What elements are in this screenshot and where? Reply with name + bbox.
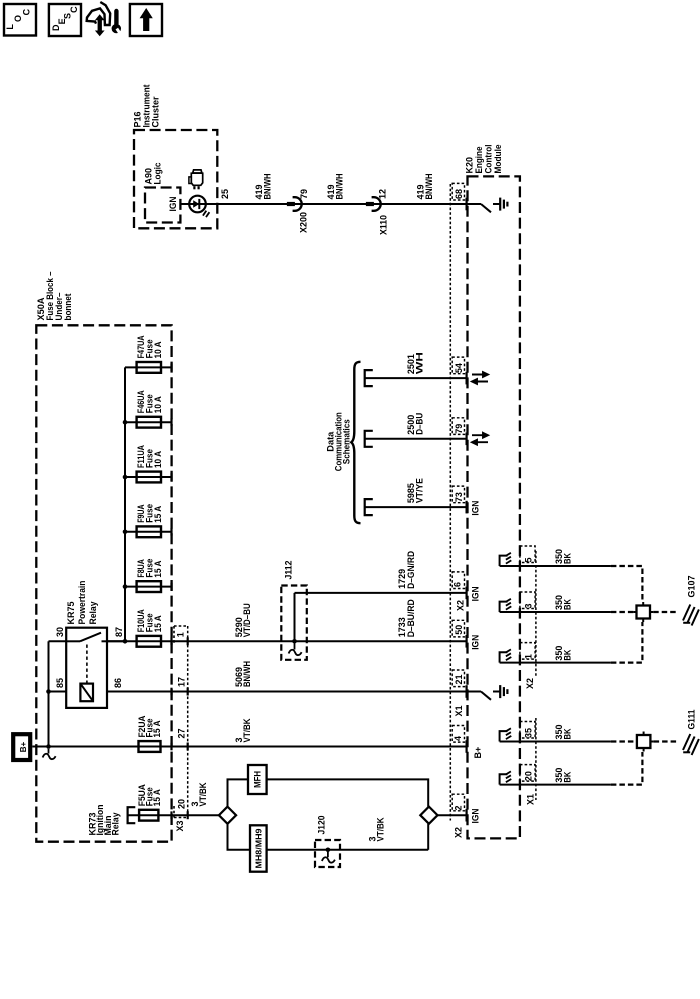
svg-text:68: 68 <box>454 189 464 199</box>
svg-text:MH8/MH9: MH8/MH9 <box>253 828 263 868</box>
dashed wire G107 to ground point <box>653 611 677 613</box>
svg-text:X3: X3 <box>175 820 185 831</box>
svg-text:21: 21 <box>454 674 464 684</box>
fuse F11UA 10 A <box>125 476 172 478</box>
svg-text:BK: BK <box>563 649 573 660</box>
dashed ground routing pin 20 to G111 <box>611 752 643 785</box>
svg-text:2: 2 <box>454 805 464 810</box>
svg-text:1: 1 <box>176 632 186 637</box>
wire bottom branch to MH8/MH9 <box>228 824 251 850</box>
svg-text:D–GN/RD: D–GN/RD <box>406 550 416 588</box>
svg-text:IGN: IGN <box>470 635 480 650</box>
ECM connector strip right X1 <box>535 718 537 800</box>
indicator lamp bulb icon <box>193 170 202 173</box>
pin 68 terminal tick <box>466 198 468 211</box>
fuse F9UA 15 A <box>125 531 172 533</box>
svg-text:86: 86 <box>113 678 123 688</box>
wire 350 BK pin 5 <box>500 565 611 567</box>
svg-text:VT/D–BU: VT/D–BU <box>242 603 252 637</box>
pin 4 terminal tick <box>466 740 468 753</box>
svg-text:K20: K20 <box>465 157 475 174</box>
component MFH <box>248 765 267 794</box>
splice diamond right <box>420 807 437 824</box>
svg-text:BK: BK <box>563 728 573 739</box>
svg-text:10 A: 10 A <box>153 341 163 358</box>
svg-text:VT/YE: VT/YE <box>415 478 425 503</box>
svg-text:73: 73 <box>454 492 464 502</box>
svg-text:Control: Control <box>484 145 494 174</box>
icon up-arrow button <box>130 4 162 36</box>
fuse F8UA 15 A <box>125 586 172 588</box>
pin 50 terminal tick <box>466 635 468 648</box>
wire 1729 D-GN/RD to pin 6 <box>295 592 467 594</box>
svg-text:IGN: IGN <box>470 501 480 516</box>
svg-text:J112: J112 <box>284 561 294 580</box>
svg-text:87: 87 <box>114 627 124 637</box>
svg-text:BK: BK <box>563 599 573 610</box>
relay coil KR75 <box>80 684 93 702</box>
pin 17 tick already; pin 21 terminal tick <box>466 685 468 698</box>
wire MFH to right diamond <box>267 779 429 806</box>
ground pin 20 internal ground symbol <box>500 774 508 784</box>
relay KR75 Powertrain Relay box <box>66 628 107 708</box>
wire relay pin30 to B+ feed <box>49 640 67 642</box>
wire 5069 BN/WH run pin86 to pin 21 <box>107 691 468 693</box>
dashed ground routing pin 5 to G107 <box>611 566 643 602</box>
svg-text:VT/BK: VT/BK <box>376 817 386 841</box>
svg-text:BK: BK <box>563 553 573 564</box>
icon LOC button <box>4 4 36 36</box>
svg-text:BN/WH: BN/WH <box>424 174 434 200</box>
svg-text:79: 79 <box>454 424 464 434</box>
pin 2 terminal tick <box>466 809 468 822</box>
svg-text:Logic: Logic <box>153 163 163 185</box>
continuation squiggle below B+ junction <box>43 749 56 759</box>
svg-text:Module: Module <box>493 145 503 174</box>
switch to ground inside ECM at pin 21 <box>468 691 482 693</box>
svg-text:BK: BK <box>563 771 573 782</box>
svg-text:12: 12 <box>378 189 388 199</box>
wire 350 BK pin 1 <box>500 662 611 664</box>
svg-text:15 A: 15 A <box>153 615 163 632</box>
svg-text:G111: G111 <box>687 710 697 730</box>
svg-text:VT/BK: VT/BK <box>198 782 208 806</box>
svg-text:IGN: IGN <box>471 809 481 824</box>
svg-text:17: 17 <box>177 677 187 687</box>
svg-text:X1: X1 <box>454 705 464 716</box>
ground splice G111 <box>637 735 651 748</box>
connector X200 <box>287 202 295 206</box>
ground pin 1 internal ground symbol <box>500 652 508 662</box>
wire J120 to right diamond <box>427 824 429 850</box>
svg-text:25: 25 <box>220 189 230 199</box>
wire 350 BK pin 35 <box>500 741 611 743</box>
pin 6 terminal tick <box>466 587 468 600</box>
svg-text:85: 85 <box>55 678 65 688</box>
svg-text:B+: B+ <box>19 741 28 752</box>
svg-text:bonnet: bonnet <box>63 294 73 321</box>
wire top branch to MFH <box>228 779 249 806</box>
wire 5290 VT/D-BU run F10UA to pin 50 <box>107 640 467 642</box>
connector X110 <box>366 202 374 206</box>
ground pin 35 internal ground symbol <box>500 731 508 741</box>
svg-text:Relay: Relay <box>88 602 98 625</box>
ECM connector strip right X2 <box>535 551 537 676</box>
continuation squiggle below J120 splice <box>322 852 335 863</box>
svg-text:15 A: 15 A <box>153 560 163 577</box>
svg-text:50: 50 <box>454 625 464 635</box>
battery terminal B+ <box>13 734 30 760</box>
svg-text:3: 3 <box>524 603 534 608</box>
svg-text:J120: J120 <box>317 816 327 835</box>
svg-text:BN/WH: BN/WH <box>335 174 345 200</box>
svg-text:5: 5 <box>524 557 534 562</box>
svg-text:Relay: Relay <box>111 813 121 836</box>
svg-text:54: 54 <box>454 363 464 373</box>
svg-text:27: 27 <box>177 728 187 738</box>
A90 Logic box <box>145 188 180 223</box>
wire 3 VT/BK B+ run to pin 4 <box>32 746 466 748</box>
svg-text:15 A: 15 A <box>153 505 163 522</box>
continuation squiggle below J112 splice <box>289 644 302 656</box>
indicator lamp LED symbol <box>189 196 206 213</box>
ground G111 <box>683 751 690 753</box>
svg-text:10 A: 10 A <box>153 451 163 468</box>
svg-text:C: C <box>22 8 32 15</box>
ground splice G107 <box>637 606 651 619</box>
svg-text:C: C <box>69 6 79 13</box>
wire MH8/MH9 to J120 <box>267 849 429 851</box>
svg-text:VT/BK: VT/BK <box>242 718 252 742</box>
fuse bus wire <box>124 367 126 641</box>
relay mechanical link <box>86 645 88 684</box>
svg-text:MFH: MFH <box>253 771 263 788</box>
icon DESC button <box>49 4 81 36</box>
connector X3 strip <box>187 626 189 818</box>
dashed ground routing pin 1 to G107 <box>611 622 643 663</box>
svg-text:4: 4 <box>453 736 463 741</box>
ground pin 5 internal ground symbol <box>500 556 508 566</box>
wire relay pin87 to fuse bus <box>107 640 125 642</box>
svg-text:Cluster: Cluster <box>151 96 161 127</box>
svg-text:KR75: KR75 <box>66 602 76 625</box>
component MH8/MH9 <box>250 825 267 871</box>
svg-text:35: 35 <box>524 728 534 738</box>
svg-text:IGN: IGN <box>168 197 178 212</box>
K20 Engine Control Module box <box>468 176 520 838</box>
svg-text:B+: B+ <box>473 747 483 759</box>
wire relay pin85 <box>49 691 67 693</box>
ticks at fuse block edge <box>170 638 172 646</box>
wire 2501 to pin 54 <box>365 370 373 386</box>
wire 5985 to pin 73 <box>365 499 373 515</box>
svg-text:Schematics: Schematics <box>342 419 352 464</box>
svg-text:G107: G107 <box>687 576 697 598</box>
X50A Fuse Block Underbonnet box <box>36 325 171 841</box>
svg-text:IGN: IGN <box>470 586 480 601</box>
svg-text:X2: X2 <box>454 827 464 838</box>
svg-text:BN/WH: BN/WH <box>242 661 252 687</box>
icon pan-arrow with wrench <box>87 2 111 25</box>
svg-text:6: 6 <box>453 582 463 587</box>
svg-text:20: 20 <box>177 799 187 809</box>
svg-text:X2: X2 <box>456 600 466 611</box>
ECM connector strip left <box>449 184 451 821</box>
svg-text:Engine: Engine <box>474 147 484 174</box>
serial data arrows at pin 79 <box>472 433 488 438</box>
icon wrench part <box>114 11 118 24</box>
P16 Instrument Cluster box <box>134 130 217 228</box>
junction B+ feed <box>46 744 51 749</box>
svg-text:30: 30 <box>55 627 65 637</box>
svg-text:X110: X110 <box>379 215 389 235</box>
wire 350 BK pin 3 <box>500 611 611 613</box>
svg-text:X1: X1 <box>526 794 536 805</box>
splice diamond left <box>219 807 236 824</box>
svg-text:WH: WH <box>415 352 425 374</box>
wire 350 BK pin 20 <box>500 784 611 786</box>
wire F5UA feed <box>129 814 220 816</box>
fuse F47UA 10 A <box>125 366 172 368</box>
serial data arrows at pin 54 <box>472 372 488 377</box>
wire 419 BN/WH top run <box>180 203 466 205</box>
svg-text:1: 1 <box>524 654 534 659</box>
wire diamond to ECM pin 2 <box>438 814 467 816</box>
dashed wire G111 to ground point <box>654 740 677 742</box>
ground pin 3 internal ground symbol <box>500 602 508 612</box>
svg-text:79: 79 <box>299 189 309 199</box>
svg-text:15 A: 15 A <box>152 720 162 737</box>
svg-text:Powertrain: Powertrain <box>77 581 87 625</box>
svg-text:D–BU/RD: D–BU/RD <box>406 599 416 637</box>
svg-text:X2: X2 <box>525 678 535 689</box>
svg-text:L: L <box>5 24 15 30</box>
wire J112 branch vertical <box>294 593 296 641</box>
svg-text:20: 20 <box>524 771 534 781</box>
svg-text:D–BU: D–BU <box>415 413 425 435</box>
svg-text:BN/WH: BN/WH <box>263 174 273 200</box>
brace data communication group <box>351 362 360 523</box>
relay switch contact <box>66 640 80 642</box>
svg-text:10 A: 10 A <box>153 396 163 413</box>
svg-text:15 A: 15 A <box>152 789 162 806</box>
ground G107 <box>683 622 690 624</box>
wire 2500 to pin 79 <box>365 431 373 447</box>
fuse F46UA 10 A <box>125 421 172 423</box>
switch to ground inside ECM at pin 68 <box>468 203 482 205</box>
svg-text:X200: X200 <box>299 212 309 233</box>
